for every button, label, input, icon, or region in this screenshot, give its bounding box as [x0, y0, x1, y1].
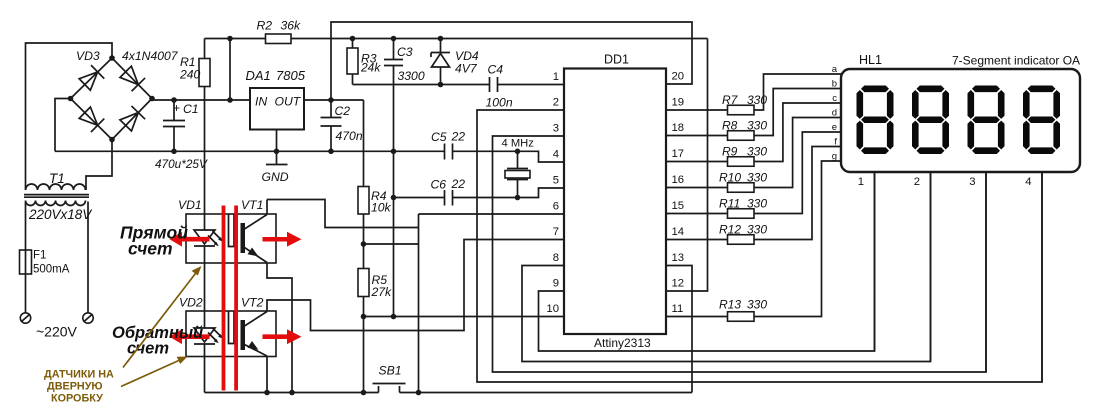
- pin 9 label: [553, 278, 559, 290]
- label C4: [488, 63, 504, 77]
- svg-text:330: 330: [747, 223, 767, 237]
- svg-text:VT1: VT1: [241, 198, 263, 212]
- voltage regulator DA1 7805: [250, 88, 304, 130]
- svg-text:F1: F1: [33, 250, 46, 262]
- node VT1 emitter gnd: [289, 390, 295, 396]
- svg-text:470n: 470n: [336, 129, 363, 143]
- svg-text:VD1: VD1: [178, 198, 202, 212]
- wire VT1 emitter to gnd rail: [267, 263, 292, 393]
- svg-text:22: 22: [451, 130, 466, 144]
- capacitor C4: [490, 77, 498, 92]
- svg-text:4: 4: [1025, 176, 1031, 188]
- label R7 330: [722, 93, 767, 107]
- wire C4 to pin 1: [498, 84, 565, 86]
- label Attiny2313: [594, 336, 651, 350]
- node OUT junction: [328, 97, 334, 103]
- label segment a: [832, 64, 838, 75]
- resistor R8: [666, 89, 841, 141]
- svg-text:R13: R13: [719, 298, 741, 312]
- node B crystal bottom: [515, 195, 521, 201]
- transformer T1: [24, 184, 89, 206]
- wire pin 3 net to digit 3: [493, 136, 987, 372]
- label 3300: [398, 69, 425, 83]
- display HL1 body: [841, 69, 1080, 172]
- label +C1: [173, 101, 199, 116]
- svg-text:b: b: [832, 79, 837, 90]
- optocoupler block VD1/VT1 box: [186, 214, 276, 263]
- pin 13 label: [672, 252, 685, 264]
- svg-text:330: 330: [747, 145, 767, 159]
- label SB1: [379, 364, 402, 378]
- label 470u*25V: [155, 157, 208, 171]
- svg-text:OUT: OUT: [275, 95, 302, 109]
- LED VD1: [194, 214, 215, 328]
- svg-text:HL1: HL1: [859, 53, 882, 67]
- wire pin 12 to rail 38.5: [666, 39, 708, 292]
- svg-text:C1: C1: [183, 102, 199, 116]
- label R2 36k: [257, 19, 302, 33]
- node C1 top: [171, 97, 177, 103]
- red beam line left: [222, 206, 226, 391]
- svg-text:100n: 100n: [486, 96, 513, 110]
- red arrow out-left block 2: [170, 329, 210, 344]
- red beam line right: [234, 206, 238, 391]
- svg-text:13: 13: [672, 252, 685, 264]
- svg-text:T1: T1: [49, 171, 65, 186]
- 7-segment digit 4: [1023, 86, 1060, 155]
- label R10 330: [719, 171, 767, 185]
- label DD1: [604, 53, 629, 67]
- svg-text:7-Segment indicator OA: 7-Segment indicator OA: [952, 54, 1080, 68]
- wire HL1 digit pin 4: [1041, 172, 1043, 382]
- label segment g: [832, 151, 837, 162]
- wire pin 2 net to digit 4: [477, 110, 1042, 382]
- svg-text:2: 2: [914, 176, 920, 188]
- svg-text:7805: 7805: [276, 68, 306, 83]
- 7-segment digit 2: [912, 86, 949, 155]
- node R5 bottom gnd: [361, 314, 367, 320]
- phototransistor VT2: [241, 312, 268, 357]
- pin 5 label: [553, 175, 559, 187]
- svg-text:1: 1: [858, 176, 864, 188]
- pin 3 label: [553, 123, 559, 135]
- label VD3: [76, 49, 100, 63]
- svg-text:R12: R12: [719, 223, 741, 237]
- label GND: [262, 170, 289, 184]
- svg-text:C2: C2: [335, 104, 351, 118]
- svg-text:240: 240: [179, 68, 201, 82]
- svg-text:VD3: VD3: [76, 49, 100, 63]
- resistor R5: [358, 269, 369, 393]
- svg-text:470u*25V: 470u*25V: [155, 157, 208, 171]
- svg-text:R2: R2: [257, 19, 273, 33]
- label VD2: [179, 296, 203, 310]
- svg-text:11: 11: [672, 303, 684, 315]
- svg-text:500mA: 500mA: [33, 264, 70, 276]
- svg-text:24k: 24k: [360, 61, 381, 75]
- resistor R12: [666, 147, 841, 245]
- label 220Vx18V: [28, 207, 93, 222]
- node VD4 bottom: [438, 82, 444, 88]
- label 4 MHz: [502, 138, 535, 150]
- node R3 top: [350, 36, 356, 42]
- label R4 10k: [371, 189, 392, 215]
- pin 14 label: [672, 226, 685, 238]
- red arrow out-right block 2: [263, 329, 302, 344]
- label 4V7: [455, 62, 478, 76]
- svg-text:6: 6: [553, 201, 559, 213]
- bridge rectifier VD3 outline: [71, 58, 153, 140]
- label R13 330: [719, 298, 767, 312]
- node C1 bottom: [171, 149, 177, 155]
- pin 2 label: [553, 97, 559, 109]
- wire ground rail: [55, 150, 445, 152]
- resistor R1: [199, 39, 210, 215]
- svg-text:GND: GND: [262, 170, 289, 184]
- svg-text:16: 16: [672, 174, 685, 186]
- node bridge left: [68, 96, 74, 102]
- crystal ZQ1 4MHz: [505, 151, 530, 197]
- diode VD3.3 lower-left: [78, 106, 104, 132]
- svg-text:330: 330: [747, 197, 767, 211]
- wire rail 38.5 (R2 node rail): [205, 38, 708, 40]
- label segment d: [832, 108, 837, 119]
- node IN riser bottom: [227, 97, 233, 103]
- label 470n: [336, 129, 363, 143]
- 7-segment digit 1: [857, 86, 894, 155]
- svg-text:C4: C4: [488, 63, 504, 77]
- svg-text:19: 19: [672, 97, 685, 109]
- node bridge right: [149, 96, 155, 102]
- terminal X1: [20, 313, 30, 323]
- label VD1: [178, 198, 202, 212]
- wire pin 13 to gnd rail: [666, 266, 692, 393]
- 7-segment digit 3: [968, 86, 1005, 155]
- svg-text:4V7: 4V7: [455, 62, 478, 76]
- label R12 330: [719, 223, 767, 237]
- svg-text:18: 18: [672, 122, 685, 134]
- svg-text:f: f: [834, 137, 837, 148]
- svg-text:R8: R8: [722, 119, 738, 133]
- svg-text:330: 330: [747, 171, 767, 185]
- svg-text:3: 3: [553, 123, 559, 135]
- capacitor C6: [445, 190, 453, 206]
- label R8 330: [722, 119, 767, 133]
- wire +rect rail y=100: [152, 99, 364, 101]
- wire HL1 digit pin 3: [985, 172, 987, 372]
- svg-text:10: 10: [546, 303, 559, 315]
- node IN riser top: [227, 36, 233, 42]
- wire gnd bottom rail: [205, 392, 693, 394]
- label segment e: [832, 122, 837, 133]
- svg-text:330: 330: [747, 119, 767, 133]
- pin 18 label: [672, 122, 685, 134]
- node VT2 emitter gnd: [264, 390, 270, 396]
- wire HL1 digit pin 2: [930, 172, 932, 362]
- svg-text:9: 9: [553, 278, 559, 290]
- svg-text:VT2: VT2: [241, 296, 264, 310]
- label segment f: [834, 137, 837, 148]
- capacitor C2: [321, 100, 342, 151]
- label R3 24k: [360, 52, 381, 75]
- svg-text:+: +: [173, 101, 180, 115]
- wire pin 9 net to digit 1: [539, 172, 875, 351]
- svg-text:a: a: [832, 64, 838, 75]
- svg-text:3300: 3300: [398, 69, 425, 83]
- IC DD1 body: [564, 69, 666, 335]
- wire IN riser: [229, 39, 231, 101]
- pin 16 label: [672, 174, 685, 186]
- LED VD2 emission arrows: [208, 328, 223, 343]
- label OUT: [275, 95, 302, 109]
- label F1 500mA: [33, 250, 70, 276]
- svg-text:17: 17: [672, 148, 685, 160]
- node SB1 left: [361, 390, 367, 396]
- label 4x1N4007: [122, 49, 179, 63]
- svg-text:220Vx18V: 220Vx18V: [28, 207, 93, 222]
- label C6 22: [431, 177, 466, 192]
- pin 1 label: [553, 71, 559, 83]
- svg-text:C5: C5: [431, 130, 447, 144]
- red arrow out-right block 1: [263, 232, 302, 247]
- label DA1 7805: [246, 68, 306, 83]
- label VT2: [241, 296, 264, 310]
- svg-text:3: 3: [969, 176, 975, 188]
- svg-text:c: c: [832, 93, 837, 104]
- label digit pin 1: [858, 176, 864, 188]
- terminal X2: [83, 313, 93, 323]
- node VD4 top: [438, 36, 444, 42]
- svg-text:12: 12: [672, 278, 685, 290]
- wire VT1 collector to pin 6: [267, 200, 564, 393]
- node R4/R5 junction X: [361, 241, 367, 247]
- pin 8 label: [553, 252, 559, 264]
- wire HL1 digit pin 1: [874, 172, 876, 351]
- wire +5 to R4 drop: [363, 100, 365, 187]
- label 100n: [486, 96, 513, 110]
- svg-text:27k: 27k: [371, 285, 393, 299]
- pushbutton SB1: [373, 384, 406, 393]
- svg-text:2: 2: [553, 97, 559, 109]
- svg-text:e: e: [832, 122, 837, 133]
- wire X to SB1 right vertical: [364, 243, 419, 245]
- label R1 240: [179, 55, 201, 82]
- svg-text:ДАТЧИКИ НА: ДАТЧИКИ НА: [44, 369, 114, 381]
- node C3 gnd rail: [391, 149, 397, 155]
- label VT1: [241, 198, 263, 212]
- svg-text:~220V: ~220V: [36, 324, 78, 340]
- diode VD3.2 upper-right: [119, 65, 145, 91]
- svg-text:IN: IN: [255, 95, 267, 109]
- LED VD1 emission arrows: [208, 231, 223, 246]
- wire gnd to C6: [394, 197, 445, 199]
- pin 10 label: [546, 303, 559, 315]
- red arrow out-left block 1: [170, 232, 210, 247]
- resistor R13: [666, 161, 841, 321]
- annotation arrow to block 2: [121, 357, 188, 387]
- node bridge top: [109, 55, 115, 61]
- resistor R11: [666, 132, 841, 218]
- label VD4: [455, 49, 479, 63]
- annotation arrow to block 1: [123, 266, 202, 368]
- capacitor C3: [384, 39, 403, 317]
- label C2: [335, 104, 351, 118]
- label 7-Segment indicator OA: [952, 54, 1080, 68]
- diode VD3.4 lower-right: [119, 106, 145, 132]
- svg-text:R7: R7: [722, 93, 739, 107]
- label segment b: [832, 79, 837, 90]
- svg-text:330: 330: [747, 93, 767, 107]
- label HL1: [859, 53, 882, 67]
- capacitor C1: [163, 100, 185, 151]
- wire C5 to crystal node A and pin 4: [453, 151, 565, 162]
- svg-text:КОРОБКУ: КОРОБКУ: [51, 393, 103, 405]
- node C3 line gnd: [391, 314, 397, 320]
- svg-text:4 MHz: 4 MHz: [502, 138, 535, 150]
- wire +5V riser and top rail to pin 20: [331, 22, 692, 100]
- svg-text:20: 20: [672, 71, 685, 83]
- pin 11 label: [672, 303, 684, 315]
- label R9 330: [722, 145, 767, 159]
- annotation text ДАТЧИКИ НА ДВЕРНУЮ КОРОБКУ: [44, 369, 114, 405]
- pin 4 label: [553, 149, 559, 161]
- svg-text:C6: C6: [431, 178, 447, 192]
- label ~220V: [36, 324, 78, 340]
- pin 6 label: [553, 201, 559, 213]
- svg-text:DA1: DA1: [246, 68, 271, 83]
- slot aperture block 1: [229, 214, 235, 247]
- svg-text:VD2: VD2: [179, 296, 203, 310]
- svg-text:R10: R10: [719, 171, 741, 185]
- LED VD2: [194, 328, 215, 393]
- svg-text:R9: R9: [722, 145, 738, 159]
- svg-text:4: 4: [553, 149, 559, 161]
- label digit pin 4: [1025, 176, 1031, 188]
- resistor R9: [666, 103, 841, 166]
- wire secondary right to bridge bottom: [86, 140, 112, 191]
- wire pin 8 net to digit 2: [522, 172, 931, 362]
- label R5 27k: [371, 273, 393, 299]
- svg-text:4x1N4007: 4x1N4007: [122, 49, 179, 63]
- label C3: [397, 45, 413, 59]
- svg-text:5: 5: [553, 175, 559, 187]
- svg-text:C3: C3: [397, 45, 413, 59]
- wire VT2 emitter to gnd rail: [266, 356, 268, 393]
- pin 19 label: [672, 97, 685, 109]
- svg-text:DD1: DD1: [604, 53, 629, 67]
- resistor R4: [358, 187, 369, 269]
- svg-text:g: g: [832, 151, 837, 162]
- slot aperture block 2: [229, 311, 235, 344]
- wire mains right leg: [87, 202, 89, 313]
- svg-text:36k: 36k: [281, 19, 302, 33]
- node C6 gnd: [391, 195, 397, 201]
- svg-text:14: 14: [672, 226, 685, 238]
- wire gnd net pin10 line: [364, 316, 565, 318]
- node C2 bottom: [328, 149, 334, 155]
- wire mains left leg (terminal to fuse to transformer primary left): [25, 202, 27, 313]
- resistor R10: [666, 118, 841, 193]
- svg-text:330: 330: [747, 298, 767, 312]
- label IN: [255, 95, 267, 109]
- svg-text:15: 15: [672, 200, 685, 212]
- label Прямой счет: [120, 223, 188, 259]
- node DA1 gnd on rail: [274, 149, 280, 155]
- svg-text:8: 8: [553, 252, 559, 264]
- pin 17 label: [672, 148, 685, 160]
- resistor R7: [666, 74, 841, 115]
- wire VT2 collector to pin 7: [267, 240, 564, 331]
- label digit pin 2: [914, 176, 920, 188]
- pin 20 label: [672, 71, 685, 83]
- svg-text:Attiny2313: Attiny2313: [594, 336, 651, 350]
- node bridge bottom: [109, 137, 115, 143]
- wire reset signal line y=84.5: [353, 84, 490, 86]
- resistor R2: [266, 34, 292, 44]
- svg-text:ДВЕРНУЮ: ДВЕРНУЮ: [47, 381, 103, 393]
- fuse F1: [20, 250, 32, 274]
- optocoupler block VD2/VT2 box: [186, 311, 276, 357]
- diode VD3.1 upper-left: [78, 65, 104, 91]
- svg-text:R11: R11: [719, 197, 740, 211]
- pin 7 label: [553, 226, 559, 238]
- pin 12 label: [672, 278, 685, 290]
- label Обратный счет: [112, 324, 203, 358]
- svg-text:7: 7: [553, 226, 559, 238]
- svg-text:22: 22: [451, 177, 466, 191]
- phototransistor VT1: [241, 200, 268, 263]
- resistor R3: [347, 39, 358, 85]
- pin 15 label: [672, 200, 685, 212]
- wire secondary left to bridge top: [26, 43, 113, 190]
- label R11 330: [719, 197, 767, 211]
- capacitor C5: [445, 144, 453, 160]
- node A crystal top: [515, 149, 521, 155]
- zener diode VD4: [431, 39, 450, 85]
- wire C6 to crystal node B and pin 5: [453, 188, 565, 198]
- svg-text:1: 1: [553, 71, 559, 83]
- svg-text:10k: 10k: [371, 201, 392, 215]
- label C5 22: [431, 130, 465, 145]
- node SB1 right: [416, 390, 422, 396]
- svg-text:d: d: [832, 108, 837, 119]
- svg-text:SB1: SB1: [379, 364, 402, 378]
- label digit pin 3: [969, 176, 975, 188]
- label segment c: [832, 93, 837, 104]
- svg-text:счет: счет: [128, 239, 173, 259]
- ground symbol GND of DA1: [266, 130, 288, 165]
- label T1: [49, 171, 65, 186]
- wire bridge left to ground rail: [55, 99, 71, 152]
- node C3 top: [391, 36, 397, 42]
